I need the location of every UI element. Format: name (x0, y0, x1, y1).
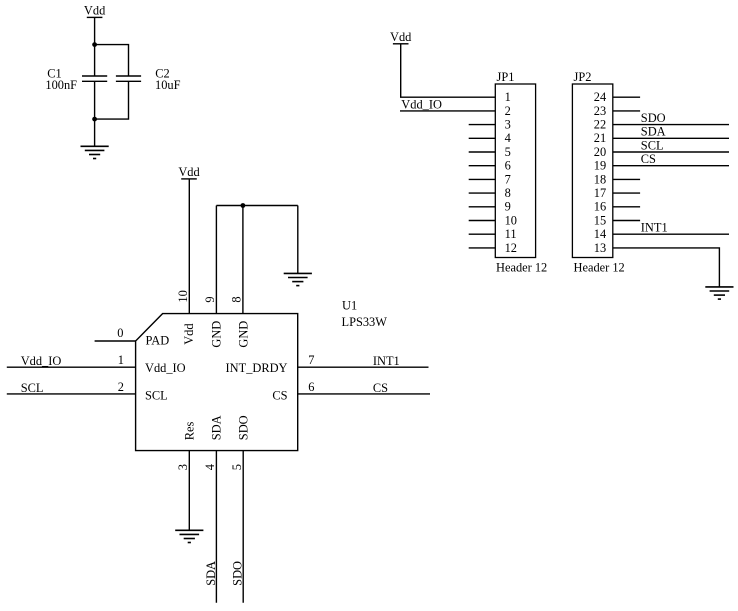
svg-text:SDA: SDA (641, 125, 666, 139)
svg-text:2: 2 (505, 104, 511, 118)
ground (U1 pin 3) (175, 530, 203, 542)
wire C1 bottom to ground (94, 81, 96, 146)
wire U1 pin 1 (net Vdd_IO) (7, 366, 136, 368)
wire U1 pin 4 (net SDA) down (215, 451, 217, 603)
wire Vdd to JP1 pin 1 (401, 44, 496, 97)
wire JP1 pin 4 stub (469, 137, 496, 139)
wire JP1 pin 7 stub (469, 178, 496, 180)
wire JP2 pin 19 (net CS) (613, 165, 729, 167)
ground (JP2 pin 13) (705, 287, 733, 299)
svg-text:23: 23 (594, 104, 606, 118)
wire U1 pin 8 up (242, 206, 244, 314)
svg-text:10: 10 (505, 213, 517, 227)
svg-text:Vdd_IO: Vdd_IO (145, 361, 186, 375)
svg-text:SDO: SDO (641, 111, 666, 125)
svg-text:1: 1 (505, 90, 511, 104)
svg-text:19: 19 (594, 159, 606, 173)
svg-text:GND: GND (209, 321, 223, 348)
svg-text:9: 9 (203, 296, 217, 302)
svg-text:11: 11 (505, 227, 517, 241)
wire U1 pin 2 (net SCL) (7, 393, 136, 395)
svg-text:18: 18 (594, 172, 606, 186)
svg-text:7: 7 (505, 172, 511, 186)
svg-text:22: 22 (594, 118, 606, 132)
wire U1 pin 6 (net CS) (298, 393, 430, 395)
svg-text:Vdd_IO: Vdd_IO (21, 354, 62, 368)
wire JP2 pin 14 (net INT1) (613, 233, 729, 235)
wire GND bus down to ground (297, 206, 299, 274)
JP2 pin 24 stub wire (613, 96, 640, 98)
svg-text:10uF: 10uF (155, 78, 181, 92)
svg-text:14: 14 (594, 227, 606, 241)
JP2 pin 15 stub wire (613, 220, 640, 222)
svg-text:Vdd: Vdd (182, 323, 196, 345)
svg-text:4: 4 (203, 464, 217, 470)
wire JP2 pin 22 (net SDO) (613, 124, 729, 126)
wire JP1 pin 2 (net Vdd_IO) (400, 110, 495, 112)
svg-text:Vdd: Vdd (178, 165, 200, 179)
JP2 pin 17 stub wire (613, 192, 640, 194)
svg-text:JP1: JP1 (497, 70, 515, 84)
svg-text:24: 24 (594, 90, 606, 104)
wire branch to C2 top (95, 45, 129, 76)
svg-text:16: 16 (594, 200, 606, 214)
wire U1 pin 5 (net SDO) down (242, 451, 244, 603)
svg-text:Header 12: Header 12 (574, 261, 625, 275)
svg-text:21: 21 (594, 131, 606, 145)
svg-text:3: 3 (505, 118, 511, 132)
junction on GND bus (241, 203, 246, 208)
JP2 pin 18 stub wire (613, 178, 640, 180)
svg-text:CS: CS (373, 381, 388, 395)
svg-text:INT_DRDY: INT_DRDY (226, 361, 288, 375)
wire JP1 pin 12 stub (469, 247, 496, 249)
svg-text:SDA: SDA (210, 415, 224, 440)
svg-text:4: 4 (505, 131, 511, 145)
svg-text:SDO: SDO (231, 561, 245, 586)
svg-text:20: 20 (594, 145, 606, 159)
svg-text:Header 12: Header 12 (496, 261, 547, 275)
wire Vdd to U1 pin 10 (188, 179, 190, 314)
junction at C1 top node (92, 42, 97, 47)
ground (decoupling block) (81, 146, 109, 158)
svg-text:3: 3 (176, 464, 190, 470)
svg-text:Res: Res (183, 421, 197, 440)
svg-text:10: 10 (176, 290, 190, 302)
wire GND bus horizontal (216, 205, 297, 207)
wire JP1 pin 8 stub (469, 192, 496, 194)
svg-text:5: 5 (230, 464, 244, 470)
svg-text:GND: GND (236, 321, 250, 348)
wire JP1 pin 6 stub (469, 165, 496, 167)
svg-text:SCL: SCL (145, 389, 168, 403)
wire U1 pin 7 (net INT1) (298, 366, 429, 368)
wire JP1 pin 3 stub (469, 124, 496, 126)
svg-text:SCL: SCL (641, 138, 664, 152)
wire U1 pin 3 down (188, 451, 190, 531)
power flag Vdd (node Vdd, JP1 pin 1) (390, 30, 412, 44)
svg-text:5: 5 (505, 145, 511, 159)
svg-text:U1: U1 (342, 299, 357, 313)
connector JP2 body (572, 84, 612, 258)
svg-text:INT1: INT1 (373, 354, 400, 368)
svg-text:7: 7 (308, 353, 314, 367)
IC U1 body (LPS33W pressure sensor) (136, 314, 298, 451)
power flag Vdd (node Vdd, decoupling block) (84, 4, 106, 18)
svg-text:8: 8 (505, 186, 511, 200)
svg-text:Vdd: Vdd (390, 30, 412, 44)
svg-text:0: 0 (117, 326, 123, 340)
svg-text:9: 9 (505, 200, 511, 214)
svg-text:INT1: INT1 (641, 221, 668, 235)
junction at C1 bottom node (92, 117, 97, 122)
wire JP1 pin 10 stub (469, 220, 496, 222)
capacitor C1 (82, 76, 107, 81)
svg-text:1: 1 (118, 353, 124, 367)
svg-text:2: 2 (118, 380, 124, 394)
wire U1 pin 9 up (215, 206, 217, 314)
JP2 pin 16 stub wire (613, 206, 640, 208)
power flag Vdd (node Vdd, U1 pin 10) (178, 165, 200, 179)
JP2 pin 23 stub wire (613, 110, 640, 112)
svg-text:CS: CS (272, 389, 287, 403)
wire Vdd flag down through C1 (94, 17, 96, 76)
svg-text:JP2: JP2 (574, 70, 592, 84)
wire U1 pin 0 stub (95, 340, 136, 342)
svg-text:17: 17 (594, 186, 606, 200)
svg-text:100nF: 100nF (45, 78, 77, 92)
wire JP1 pin 9 stub (469, 206, 496, 208)
svg-text:12: 12 (505, 241, 517, 255)
svg-text:6: 6 (505, 159, 511, 173)
wire JP2 pin 21 (net SDA) (613, 137, 729, 139)
wire C2 bottom to junction (95, 81, 129, 119)
wire JP2 pin 20 (net SCL) (613, 151, 729, 153)
capacitor C2 (116, 76, 141, 81)
svg-text:Vdd_IO: Vdd_IO (401, 98, 442, 112)
wire JP2 pin 13 to ground (613, 248, 720, 287)
svg-text:LPS33W: LPS33W (342, 315, 388, 329)
wire JP1 pin 5 stub (469, 151, 496, 153)
svg-text:SDO: SDO (237, 415, 251, 440)
svg-text:8: 8 (230, 296, 244, 302)
svg-text:13: 13 (594, 241, 606, 255)
wire JP1 pin 11 stub (469, 233, 496, 235)
svg-text:CS: CS (641, 152, 656, 166)
svg-text:PAD: PAD (146, 334, 170, 348)
svg-text:SDA: SDA (204, 561, 218, 586)
svg-text:Vdd: Vdd (84, 4, 106, 18)
ground (U1 GND pins) (284, 273, 312, 285)
svg-text:15: 15 (594, 213, 606, 227)
connector JP1 body (495, 84, 535, 258)
svg-text:SCL: SCL (21, 381, 44, 395)
svg-text:6: 6 (308, 380, 314, 394)
